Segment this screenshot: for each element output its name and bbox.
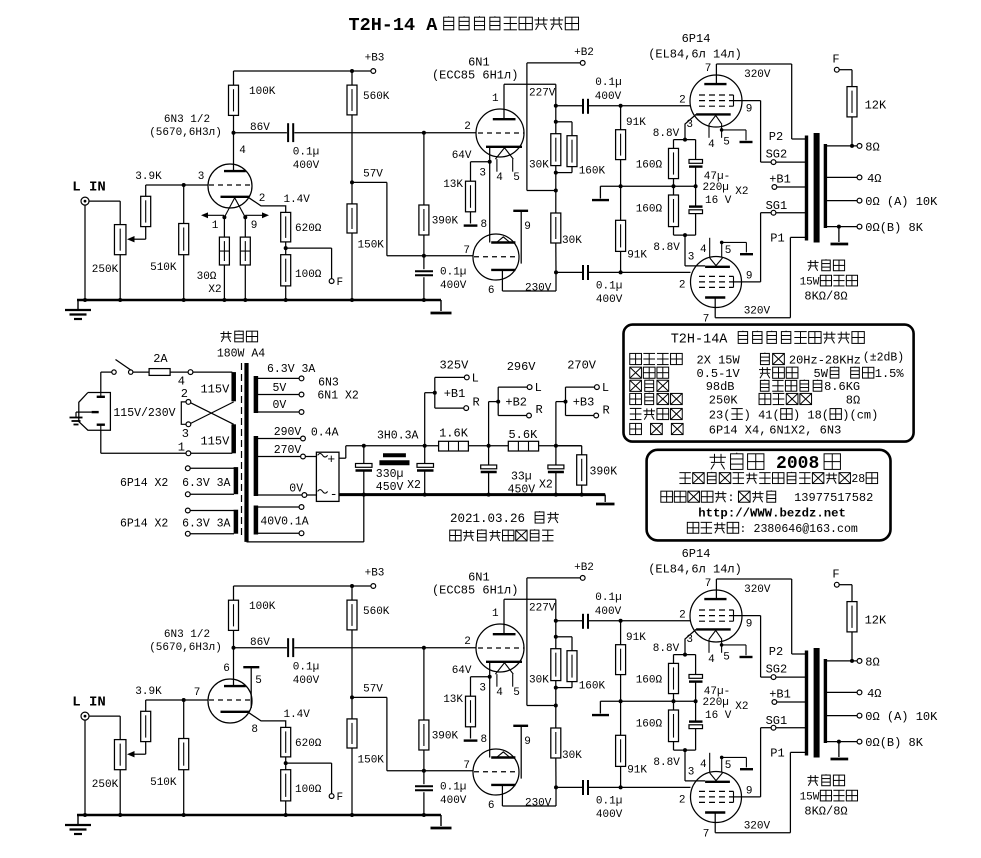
- svg-text:L: L: [535, 381, 542, 395]
- tap 0 ohm B (top channel): [827, 224, 862, 229]
- svg-text:20Hz-28KHz: 20Hz-28KHz: [789, 353, 861, 367]
- svg-text:12K: 12K: [865, 98, 887, 112]
- label pin 5 (bottom channel): [255, 675, 262, 687]
- svg-text:510K: 510K: [150, 777, 177, 789]
- svg-text:7: 7: [194, 687, 201, 699]
- label 6N3 1/2 (bottom channel): [164, 629, 210, 641]
- label 0 ohm B 8K (bottom channel): [865, 736, 923, 750]
- label 250K (top channel): [92, 264, 119, 276]
- svg-text:X2: X2: [208, 284, 221, 296]
- svg-text:160Ω: 160Ω: [636, 204, 663, 216]
- output transformer primary (bottom channel): [805, 651, 808, 756]
- label 115V upper: [200, 382, 230, 396]
- label 86V (bottom channel): [250, 637, 270, 649]
- svg-text:0Ω(B) 8K: 0Ω(B) 8K: [865, 736, 923, 750]
- label pin 9 V3 (bottom channel): [746, 619, 753, 631]
- cross wire 3 to upper: [191, 402, 234, 424]
- terminal 4 primary: [188, 370, 193, 375]
- svg-text:30K: 30K: [562, 235, 582, 247]
- label X2 33u: [539, 479, 553, 492]
- svg-text:R: R: [603, 404, 610, 418]
- resistor 160 ohm upper (bottom channel): [669, 655, 679, 702]
- label 0.1u C3 (top channel): [595, 77, 621, 89]
- svg-text:+B1: +B1: [769, 688, 791, 702]
- svg-text:390K: 390K: [432, 730, 459, 742]
- V2a cathode chevron (top channel): [495, 148, 513, 159]
- svg-text:X2: X2: [735, 701, 748, 713]
- label pin 7 V3 (bottom channel): [705, 578, 712, 590]
- label pin 5 V3 (bottom channel): [723, 652, 730, 664]
- svg-text:0.5-1V: 0.5-1V: [697, 367, 741, 381]
- terminal F (top channel): [329, 279, 334, 284]
- terminal SG2 (top channel): [771, 160, 776, 165]
- bus junction dots (top channel): [83, 298, 426, 302]
- label 0 ohm A 10K (bottom channel): [865, 710, 938, 724]
- svg-text:91K: 91K: [627, 764, 647, 776]
- svg-text:(±2dB): (±2dB): [863, 351, 904, 364]
- svg-text:400V: 400V: [293, 675, 320, 687]
- node 57V junction (top channel): [350, 180, 354, 184]
- label 220u (bottom channel): [703, 697, 729, 709]
- wire SG1 to transformer (bottom channel): [776, 727, 807, 729]
- V4 heater ticks (bottom channel): [710, 753, 722, 772]
- bias winding 40V: [254, 506, 259, 535]
- svg-text:400V: 400V: [440, 280, 467, 292]
- svg-text:2X 15W: 2X 15W: [697, 353, 741, 367]
- node 8.8V upper wire (bottom channel): [674, 654, 696, 656]
- label 0V heater: [273, 399, 287, 412]
- label 0.1u C1 (bottom channel): [293, 662, 319, 674]
- ground bar 13K (bottom channel): [464, 739, 478, 741]
- +B2 L branch: [498, 385, 532, 402]
- node grid2 junction (top channel): [422, 254, 426, 258]
- svg-text:6P14 X2 6.3V 3A: 6P14 X2 6.3V 3A: [120, 477, 231, 490]
- label L +B1: [472, 371, 479, 385]
- resistor 91K lower (top channel): [616, 186, 626, 272]
- label 6P14 X2 b: [120, 517, 231, 530]
- triode V2a envelope (bottom channel): [476, 624, 524, 672]
- terminal +B3 (bottom channel): [371, 584, 376, 589]
- svg-text:SG1: SG1: [766, 714, 788, 728]
- label 0 ohm B 8K (top channel): [865, 221, 923, 235]
- wire cap C3 to V3 grid (bottom channel): [589, 619, 691, 623]
- svg-text:L: L: [472, 371, 479, 385]
- svg-text:1.4V: 1.4V: [283, 194, 310, 206]
- label 160 ohm upper (top channel): [636, 160, 663, 172]
- label 0.1u C3 (bottom channel): [595, 592, 621, 604]
- rectifier ac mark bottom: [318, 490, 328, 494]
- svg-text:0.1µ: 0.1µ: [596, 281, 622, 293]
- ground symbol bus end (top channel): [431, 300, 452, 313]
- svg-text:320V: 320V: [744, 305, 771, 317]
- label pin 7 V4 (top channel): [703, 314, 710, 326]
- svg-text:6: 6: [223, 663, 230, 675]
- resistor 160 ohm lower (top channel): [669, 186, 679, 235]
- label 1.4V (top channel): [283, 194, 310, 206]
- potentiometer 250K (top channel): [114, 225, 126, 255]
- V4 plate bar (bottom channel): [705, 811, 725, 813]
- V2a plate bar (top channel): [493, 118, 516, 120]
- svg-text:390K: 390K: [590, 466, 618, 479]
- resistor 30 ohm (b) (top channel): [240, 217, 250, 300]
- svg-text:6N1 X2: 6N1 X2: [317, 390, 359, 403]
- svg-text:+B1: +B1: [769, 173, 791, 187]
- wire L IN to pot top (top channel): [89, 201, 120, 225]
- input terminal L IN (bottom channel): [81, 712, 89, 720]
- spec title: [671, 331, 865, 348]
- svg-text:F: F: [832, 53, 839, 67]
- electrolytic 47u lower (bottom channel): [689, 701, 703, 750]
- svg-text:150K: 150K: [358, 755, 385, 767]
- svg-text:13K: 13K: [443, 694, 463, 706]
- node 620/100 junction (top channel): [284, 246, 288, 250]
- svg-text:115V/230V: 115V/230V: [113, 407, 175, 420]
- svg-text:5V: 5V: [273, 382, 287, 395]
- electrolytic 33u #3: [548, 446, 564, 495]
- resistor 30K upper (bottom channel): [551, 649, 561, 706]
- output transformer core (bottom channel): [814, 648, 820, 758]
- heater winding 6P14 a: [234, 467, 239, 494]
- terminal SG2 (bottom channel): [771, 675, 776, 680]
- label 64V (bottom channel): [452, 665, 472, 677]
- svg-text:91K: 91K: [626, 117, 646, 129]
- svg-text:(ECC85 6H1л): (ECC85 6H1л): [432, 69, 518, 83]
- rectifier - mark: [330, 487, 338, 502]
- label pin 5 (bottom channel): [513, 687, 520, 699]
- wire SG1 to transformer (top channel): [776, 212, 807, 214]
- label 3.9K (bottom channel): [135, 686, 162, 698]
- V2a cathode chevron (bottom channel): [495, 663, 513, 674]
- wire to V4 cathode (bottom channel): [685, 750, 705, 781]
- node grid2 junction (bottom channel): [422, 769, 426, 773]
- V2a heater pin ticks (top channel): [497, 159, 513, 172]
- mains plug: [79, 393, 111, 431]
- svg-text:160Ω: 160Ω: [636, 719, 663, 731]
- svg-text:T2H-14 A: T2H-14 A: [349, 15, 439, 36]
- label 400V C4 (top channel): [596, 294, 623, 306]
- tap 40V bottom: [257, 531, 304, 536]
- ground bar mid (top channel): [592, 186, 609, 200]
- label 6N1 (bottom channel): [468, 571, 490, 585]
- label pin 2 (bottom channel): [464, 636, 471, 648]
- svg-text:3: 3: [686, 634, 693, 646]
- node 230V junction (bottom channel): [554, 785, 558, 789]
- resistor 13K (top channel): [466, 181, 476, 223]
- label pin 2 V3 (top channel): [679, 95, 686, 107]
- label pin 4 V4 (bottom channel): [700, 759, 707, 771]
- label 47u- (top channel): [704, 171, 730, 183]
- label pin 7 (bottom channel): [463, 760, 470, 772]
- +B2 node: [489, 400, 501, 446]
- label (ECC85 6H1l) (top channel): [432, 69, 518, 83]
- label pin 9 (bottom channel): [524, 736, 531, 748]
- label pin 9 (top channel): [524, 221, 531, 233]
- svg-text:SG2: SG2: [766, 663, 788, 677]
- V2 shield pin 9 (bottom channel): [513, 726, 528, 779]
- wire V3 plate to P2 (bottom channel): [716, 579, 806, 654]
- node pin9 junction (top channel): [243, 215, 247, 219]
- svg-text:250K: 250K: [92, 779, 119, 791]
- svg-text:9: 9: [746, 619, 753, 631]
- label pin 6 (top channel): [488, 285, 495, 297]
- label 330u: [376, 468, 404, 481]
- spec row output power: [630, 351, 904, 367]
- wire fuse to terminal 4: [170, 371, 188, 373]
- electrolytic 33u #2: [481, 446, 497, 495]
- svg-text:5: 5: [255, 675, 262, 687]
- rectifier + mark: [327, 452, 335, 467]
- svg-text:0.4A: 0.4A: [311, 426, 339, 439]
- label pin 5 V3 (top channel): [723, 137, 730, 149]
- wire cap C1 to grid V2 (top channel): [294, 131, 476, 135]
- svg-text:16 V: 16 V: [705, 195, 732, 207]
- resistor 150K (bottom channel): [347, 697, 357, 815]
- label +B3 psu: [573, 395, 595, 409]
- label 290V: [274, 426, 302, 439]
- wire live to switch: [101, 372, 112, 392]
- label 450V 33u: [508, 483, 536, 496]
- label 560K (top channel): [363, 91, 390, 103]
- resistor 1.6K: [439, 441, 469, 451]
- wire V3 pin9 to SG2 (bottom channel): [734, 610, 772, 677]
- svg-text:4: 4: [496, 687, 503, 699]
- wire 227V to cap C3 (bottom channel): [556, 620, 582, 622]
- svg-text:8Ω: 8Ω: [846, 393, 860, 407]
- label terminal 2: [181, 387, 188, 401]
- wire cap C3 to V3 grid (top channel): [589, 104, 691, 108]
- label transformer brand: [220, 330, 257, 341]
- output transformer primary (top channel): [805, 136, 808, 241]
- svg-text:15W: 15W: [800, 277, 820, 289]
- svg-text:3: 3: [182, 427, 189, 441]
- label +B2 psu: [505, 395, 527, 409]
- label 620 ohm (top channel): [295, 223, 322, 235]
- label 227V (top channel): [529, 88, 556, 100]
- label pin 3 V4 (top channel): [688, 251, 695, 263]
- svg-text:3: 3: [479, 683, 486, 695]
- input terminal L IN (top channel): [81, 197, 89, 205]
- V1 plate bar (top channel): [224, 170, 246, 172]
- svg-text:3.9K: 3.9K: [135, 171, 162, 183]
- svg-text:510K: 510K: [150, 262, 177, 274]
- wire common cathode (bottom channel): [488, 662, 492, 758]
- svg-text:150K: 150K: [358, 240, 385, 252]
- ground secondary (top channel): [831, 227, 849, 244]
- svg-text:230V: 230V: [525, 283, 552, 295]
- svg-text:6N1: 6N1: [468, 56, 490, 70]
- label 8.8V lower (top channel): [653, 242, 680, 254]
- label 400V C2 (top channel): [440, 280, 467, 292]
- svg-text:2008: 2008: [765, 454, 819, 474]
- label pin 1 (bottom channel): [492, 608, 499, 620]
- resistor 100K (top channel): [229, 71, 239, 133]
- label 91K upper (bottom channel): [626, 632, 646, 644]
- svg-text:3: 3: [688, 766, 695, 778]
- ground bar 13K (top channel): [464, 224, 478, 226]
- svg-text:296V: 296V: [507, 360, 537, 374]
- wire plate to tube (top channel): [233, 133, 235, 171]
- svg-text:28: 28: [851, 473, 865, 486]
- cross wire 2 to lower: [191, 403, 234, 425]
- label P2 (bottom channel): [769, 645, 783, 659]
- wire +B2 trunk (bottom channel): [527, 578, 581, 706]
- +B1 R branch: [435, 393, 469, 411]
- spec row tubes: [630, 423, 842, 437]
- fuse 2A: [149, 369, 170, 376]
- resistor 390K (top channel): [419, 133, 429, 256]
- wire L IN down to ground bus (top channel): [84, 205, 86, 300]
- V2b plate bar (bottom channel): [491, 784, 515, 786]
- label 13K (top channel): [443, 179, 463, 191]
- cap 0.1u C4 (bottom channel): [583, 780, 588, 795]
- label 320V lower (bottom channel): [744, 820, 771, 832]
- spec row sensitivity: [630, 366, 905, 381]
- label pin 3 (bottom channel): [479, 683, 486, 695]
- svg-text:5: 5: [513, 687, 520, 699]
- wire 230V to cap C4 (top channel): [556, 271, 582, 273]
- wire V4 pin9 to SG1 (top channel): [734, 213, 772, 288]
- transformer core bar: [244, 363, 248, 542]
- label 6P14 (bottom channel): [682, 547, 711, 561]
- label 510K (top channel): [150, 262, 177, 274]
- svg-text:2380646@163.com: 2380646@163.com: [754, 523, 858, 536]
- label 320V upper (top channel): [744, 69, 771, 81]
- wire 64V branch (bottom channel): [471, 677, 490, 696]
- svg-text:F: F: [832, 568, 839, 582]
- resistor 91K lower (bottom channel): [616, 701, 626, 787]
- svg-text:(EL84,6л 14л): (EL84,6л 14л): [648, 48, 742, 62]
- tap 4 ohm (bottom channel): [827, 690, 862, 695]
- label 8K/8ohm (bottom channel): [804, 805, 847, 819]
- svg-text:6: 6: [488, 800, 495, 812]
- wire to F terminal (bottom channel): [286, 763, 332, 794]
- svg-text:227V: 227V: [529, 603, 556, 615]
- label 115V lower: [200, 435, 230, 449]
- svg-text:6N3: 6N3: [318, 376, 339, 389]
- label terminal 4: [178, 374, 185, 388]
- terminal +B3 (top channel): [371, 69, 376, 74]
- tap 8 ohm (top channel): [827, 144, 862, 149]
- label transformer name (top channel): [807, 259, 844, 270]
- svg-text:30K: 30K: [562, 750, 582, 762]
- node 8.8V upper wire (top channel): [674, 139, 696, 141]
- label 150K (bottom channel): [358, 755, 385, 767]
- node pin1 junction (top channel): [222, 215, 226, 219]
- svg-text:0.1µ: 0.1µ: [595, 592, 621, 604]
- wire pot bottom to bus (top channel): [119, 255, 121, 300]
- V2b cathode chevron (bottom channel): [497, 752, 511, 758]
- svg-text:390K: 390K: [432, 215, 459, 227]
- label pin 4 (top channel): [239, 145, 246, 157]
- svg-text:325V: 325V: [439, 358, 469, 372]
- label pin 8 (bottom channel): [480, 734, 487, 746]
- spec row size: [630, 408, 879, 422]
- label pin 6 (bottom channel): [488, 800, 495, 812]
- plug prong earth: [92, 411, 99, 413]
- label (EL84,6l14l) (bottom channel): [648, 563, 742, 577]
- wire V4 plate to P1 (bottom channel): [715, 752, 806, 832]
- label pin 9 V4 (bottom channel): [746, 786, 753, 798]
- label pin 7 V3 (top channel): [705, 63, 712, 75]
- terminal 3 primary: [186, 422, 191, 427]
- label 8.8V upper (bottom channel): [653, 643, 680, 655]
- heater arrow right (top channel): [245, 212, 269, 218]
- svg-text:SG2: SG2: [766, 148, 788, 162]
- svg-text:8: 8: [251, 724, 258, 736]
- tap 8 ohm (bottom channel): [827, 659, 862, 664]
- V3 cathode chevron (bottom channel): [709, 630, 722, 639]
- svg-text:0.1µ: 0.1µ: [440, 267, 466, 279]
- +B2 R branch: [498, 402, 531, 418]
- V2 shield pin 9 (top channel): [513, 211, 528, 264]
- svg-text:270V: 270V: [274, 444, 302, 457]
- triode V2a envelope (top channel): [476, 109, 524, 157]
- label R +B3: [603, 404, 610, 418]
- svg-text:160Ω: 160Ω: [636, 160, 663, 172]
- +B3 L branch: [566, 385, 600, 402]
- coupling cap 0.1u C1 (bottom channel): [288, 638, 293, 657]
- bus junction dots (bottom channel): [83, 813, 426, 817]
- svg-text:13K: 13K: [443, 179, 463, 191]
- label 220u (top channel): [703, 182, 729, 194]
- node +B2 feed (bottom channel): [554, 704, 558, 708]
- wire to V4 cathode (top channel): [685, 235, 705, 266]
- +B3 R branch: [566, 402, 599, 418]
- V4 cathode bar (bottom channel): [705, 781, 730, 783]
- svg-text:4: 4: [708, 654, 715, 666]
- svg-text:+B3: +B3: [365, 53, 385, 65]
- label 100K (top channel): [249, 86, 276, 98]
- ground bus (top channel): [77, 299, 441, 302]
- svg-text:0.1µ: 0.1µ: [293, 147, 319, 159]
- tap 6P14b bottom: [185, 531, 234, 536]
- svg-text:30Ω: 30Ω: [197, 271, 217, 283]
- wire common cathode (top channel): [488, 147, 492, 243]
- tap 0 ohm B (bottom channel): [827, 739, 862, 744]
- wire V3 cathode to 8.8V node (bottom channel): [683, 629, 696, 656]
- label 57V (top channel): [363, 168, 383, 180]
- svg-text:1: 1: [492, 608, 499, 620]
- resistor 12K (top channel): [839, 70, 857, 146]
- svg-text:450V: 450V: [376, 481, 404, 494]
- svg-text:(EL84,6л 14л): (EL84,6л 14л): [648, 563, 742, 577]
- terminal F (bottom channel): [329, 794, 334, 799]
- svg-text:15W: 15W: [800, 792, 820, 804]
- node 86V junction (top channel): [232, 131, 236, 135]
- resistor 390K psu: [556, 446, 587, 495]
- label 1.6K: [439, 426, 469, 440]
- svg-text:230V: 230V: [525, 798, 552, 810]
- svg-text:0.1µ: 0.1µ: [293, 662, 319, 674]
- svg-text:98dB: 98dB: [706, 380, 735, 394]
- resistor 160K (top channel): [556, 122, 577, 173]
- svg-text:6N3 1/2: 6N3 1/2: [164, 114, 210, 126]
- svg-text:30K: 30K: [529, 160, 549, 172]
- svg-text:33µ: 33µ: [511, 471, 532, 484]
- triode V1 6N3 envelope (top channel): [208, 164, 252, 208]
- svg-text:160K: 160K: [579, 681, 606, 693]
- tap 6P14a bottom: [185, 492, 234, 497]
- resistor 160 ohm lower (bottom channel): [669, 701, 679, 750]
- label 4 ohm (top channel): [867, 172, 881, 186]
- label 12K (top channel): [865, 98, 887, 112]
- electrolytic 330u #1: [356, 446, 373, 495]
- label 4 ohm (bottom channel): [867, 687, 881, 701]
- wire top rail to +B3 (bottom channel): [234, 584, 372, 588]
- svg-text:X2: X2: [539, 479, 553, 492]
- V3 cathode bar (top channel): [696, 113, 731, 115]
- svg-text:4: 4: [708, 139, 715, 151]
